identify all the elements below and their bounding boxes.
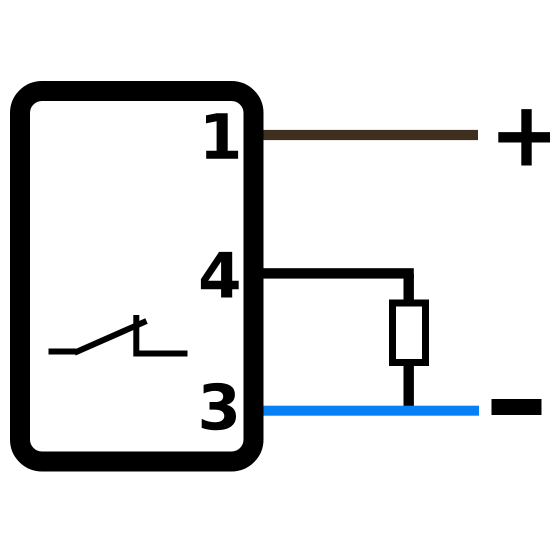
pin label 1 xyxy=(206,113,238,159)
switch contact left lead xyxy=(49,349,77,355)
wire blue (pin 3 to -) xyxy=(252,406,479,416)
wire resistor top vertical xyxy=(404,274,414,304)
pin label 3 xyxy=(202,383,236,430)
pin label 4 xyxy=(201,252,239,298)
wire brown (pin 1 to +) xyxy=(252,130,478,140)
switch lever xyxy=(75,321,147,353)
resistor R1 xyxy=(393,303,426,363)
switch fixed contact xyxy=(136,315,187,354)
wire pin 4 horizontal xyxy=(252,268,414,278)
sensor body outline xyxy=(20,91,254,462)
minus terminal xyxy=(492,399,542,415)
wire resistor bottom vertical xyxy=(404,363,414,412)
plus terminal xyxy=(498,109,550,165)
